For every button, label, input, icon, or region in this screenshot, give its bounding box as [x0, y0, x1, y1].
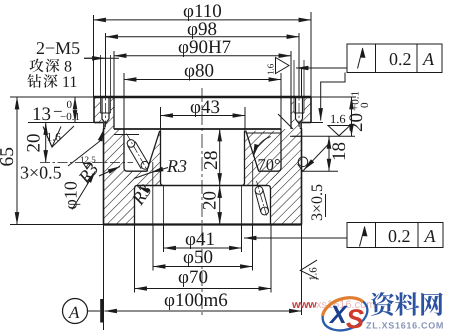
svg-text:70°: 70°: [258, 155, 281, 174]
svg-text:φ100m6: φ100m6: [164, 290, 228, 311]
part bottom surface: [104, 223, 302, 225]
leader 2-M5: [84, 57, 119, 59]
angled slot right axis: [257, 181, 267, 216]
dimension phi98: [106, 36, 300, 38]
phi41 line left: [163, 186, 165, 225]
roughness triangle on 20 dim: [43, 127, 61, 148]
extension line phi100 left: [103, 225, 105, 331]
svg-text:0: 0: [67, 99, 73, 111]
flange bottom right: [302, 122, 312, 124]
roughness check 1.6 phi100: [300, 260, 318, 279]
label drill depth: [27, 74, 57, 88]
phi70 cavity right wall: [270, 189, 272, 225]
extension line phi98 right M5 axis: [298, 33, 300, 97]
svg-text:φ70: φ70: [178, 267, 208, 288]
hatch left body wall lower: [104, 171, 135, 224]
svg-text:φ90H7: φ90H7: [178, 37, 231, 58]
bore phi80 right wall: [278, 129, 282, 171]
extension top surface right: [311, 96, 356, 98]
svg-text:A: A: [422, 49, 435, 69]
roughness symbol circle on 171.5: [298, 164, 309, 171]
moat floor left: [128, 170, 148, 172]
dimension 18 right: [328, 136, 330, 171]
extension line phi70 left: [134, 225, 136, 293]
svg-text:φ43: φ43: [190, 97, 220, 118]
extension flange bottom right: [311, 122, 323, 124]
hatch left flange wall: [94, 97, 114, 123]
cone 70 right: [246, 131, 259, 171]
datum stem: [88, 310, 101, 312]
hatch right funnel shell: [245, 131, 259, 171]
svg-text:φ50: φ50: [183, 247, 213, 268]
counterbore floor line: [114, 128, 282, 130]
hatch right moat solid: [246, 131, 281, 171]
bore phi80 left wall: [124, 129, 128, 171]
dimension phi41: [164, 247, 242, 249]
label 20+0.1: [346, 91, 371, 132]
svg-text:18: 18: [329, 142, 350, 161]
dimension phi90H7: [114, 55, 291, 57]
svg-text:1.6: 1.6: [308, 267, 320, 281]
cavity floor: [137, 185, 268, 187]
hatch right body wall mid: [281, 129, 302, 171]
runout symbol bottom: [360, 227, 365, 247]
cavity floor corner R3 left: [135, 186, 138, 190]
hatch left body wall upper: [104, 123, 115, 130]
extension flange bottom left: [28, 122, 94, 124]
svg-text:0: 0: [359, 102, 371, 108]
roughness check 1.6 left: [47, 126, 75, 147]
angled slot left walls: [128, 142, 149, 169]
svg-text:28: 28: [201, 151, 222, 171]
svg-text:11: 11: [62, 74, 77, 91]
relief groove 3x0.5 left: [104, 123, 105, 129]
extension line phi80 left: [123, 73, 125, 136]
tolerance frame bottom: [347, 223, 443, 248]
dimension 65: [16, 97, 18, 225]
svg-text:R3: R3: [166, 156, 187, 176]
svg-text:20: 20: [200, 191, 221, 210]
phi41 line right: [241, 186, 243, 225]
leader 70 degree arc: [253, 137, 270, 157]
flange left edge: [93, 97, 95, 123]
svg-text:1.6: 1.6: [330, 112, 346, 126]
cone 70 left: [147, 131, 160, 171]
extension line phi43 right: [244, 107, 246, 131]
phi100 extension up right: [301, 68, 303, 97]
hatch right body wall upper: [291, 123, 302, 130]
svg-text:φ10: φ10: [61, 181, 81, 209]
hatch right body wall lower: [271, 171, 302, 224]
extension line phi110 right: [310, 12, 312, 97]
extension line phi50 right: [252, 225, 254, 271]
floor stub left: [114, 134, 139, 136]
extension line phi43 left: [160, 107, 162, 131]
roughness triangle on phi90H7 line: [276, 58, 290, 74]
part outline top surface: [94, 96, 312, 98]
roughness check 1.6 top right: [328, 126, 350, 136]
leader R3 upper: [151, 168, 168, 173]
leader 3x0.5 left: [68, 129, 104, 166]
tolerance frame top: [347, 44, 442, 73]
datum bar: [100, 299, 103, 323]
leader 3x0.5 right: [304, 143, 330, 170]
label tap depth: [30, 59, 60, 73]
M5 hole left centerline: [105, 33, 107, 127]
svg-text:20: 20: [24, 134, 45, 153]
leader R3 lower: [138, 187, 147, 191]
M5 hole right centerline: [298, 33, 300, 127]
flange bottom left: [94, 122, 104, 124]
phi70 cavity left wall: [134, 189, 136, 225]
leader phi10: [72, 171, 96, 210]
runout symbol top: [358, 48, 363, 69]
bore phi90H7 left wall: [113, 97, 115, 129]
svg-text:1.6: 1.6: [47, 132, 62, 144]
dimension phi110: [94, 19, 312, 21]
hatch right under-moat: [245, 171, 282, 188]
moat floor right: [259, 170, 278, 172]
svg-text:0.2: 0.2: [388, 226, 411, 246]
svg-text:S: S: [346, 304, 364, 333]
dimension 20 left: [45, 123, 47, 163]
leader R3 far left: [99, 167, 120, 177]
centerline main axis: [201, 88, 203, 318]
extension line phi41 left: [163, 225, 165, 253]
svg-text:A: A: [68, 303, 80, 322]
extension line phi41 right: [241, 225, 243, 253]
stray leader segment: [278, 114, 293, 129]
svg-text:8: 8: [64, 59, 72, 76]
svg-text:−0.1: −0.1: [60, 111, 80, 123]
phi50 line left: [152, 162, 154, 225]
extension line phi50 left: [152, 225, 154, 271]
bore phi43 right wall: [242, 131, 245, 186]
svg-text:13: 13: [32, 104, 51, 125]
flange right edge: [310, 97, 312, 123]
extension step 171.5 right: [302, 170, 339, 172]
dimension phi100m6: [105, 310, 302, 312]
dimension 20 center: [219, 186, 221, 225]
dimension phi43: [161, 115, 246, 117]
tolerance frame bottom leader: [244, 237, 347, 239]
extension line phi90 left: [113, 51, 115, 97]
hatch left under-moat: [124, 171, 161, 188]
dimension phi80: [124, 79, 281, 81]
svg-text:A: A: [424, 226, 437, 246]
svg-text:3×0.5: 3×0.5: [20, 163, 62, 183]
angled slot right walls: [255, 189, 268, 212]
extension line phi98 left M5 axis: [105, 33, 107, 97]
svg-text:0.2: 0.2: [389, 49, 412, 69]
extension line phi110 left: [93, 15, 95, 97]
extension line phi100 right: [301, 225, 303, 316]
watermark: [291, 292, 444, 333]
watermark cjk name: [371, 292, 443, 316]
svg-text:2−M5: 2−M5: [36, 38, 80, 58]
bore phi90H7 right wall: [290, 97, 292, 129]
body right edge: [301, 129, 303, 225]
bore phi43 left wall: [161, 131, 164, 186]
angled slot left circles: [127, 140, 135, 148]
hatch left funnel shell: [147, 131, 161, 171]
extension line phi90 right: [290, 51, 292, 97]
svg-text:65: 65: [0, 147, 18, 167]
tolerance frame top leader: [296, 67, 347, 69]
svg-text:X: X: [328, 301, 348, 329]
svg-text:1.6: 1.6: [266, 63, 276, 75]
roughness triangle 12.5: [84, 164, 92, 170]
angled slot right circles: [255, 186, 263, 194]
horizontal centerline left slot: [40, 162, 133, 164]
extension line phi70 right: [270, 225, 272, 293]
extension bottom left: [10, 224, 104, 226]
extension top surface left: [10, 96, 94, 98]
hatch left body wall mid: [104, 129, 125, 171]
phi50 line right: [252, 162, 254, 225]
svg-text:20: 20: [346, 113, 367, 132]
svg-text:3×0.5: 3×0.5: [309, 184, 326, 221]
dimension 20+0.1 right: [351, 97, 353, 136]
angled slot left axis: [127, 134, 149, 172]
dimension phi70: [135, 288, 272, 290]
extension step 136 right: [292, 135, 355, 137]
body left edge: [103, 129, 105, 225]
watermark logo ellipse: [318, 292, 371, 333]
cavity floor corner R3 right: [268, 186, 271, 190]
svg-text:φ80: φ80: [184, 61, 214, 82]
hatch right flange wall: [291, 97, 311, 123]
dimension 13: [74, 97, 76, 123]
extension line phi80 right: [280, 73, 282, 136]
relief groove 3x0.5 right: [300, 123, 301, 129]
datum A circle: [63, 299, 88, 324]
dimension 28 center: [219, 129, 221, 186]
dimension phi50: [153, 266, 253, 268]
corner step right: [290, 135, 302, 137]
svg-text:ZL.XS1616.COM: ZL.XS1616.COM: [366, 321, 444, 331]
M5 tapped hole left: [101, 55, 111, 113]
floor stub right: [246, 132, 282, 134]
M5 tapped hole right: [294, 60, 304, 113]
